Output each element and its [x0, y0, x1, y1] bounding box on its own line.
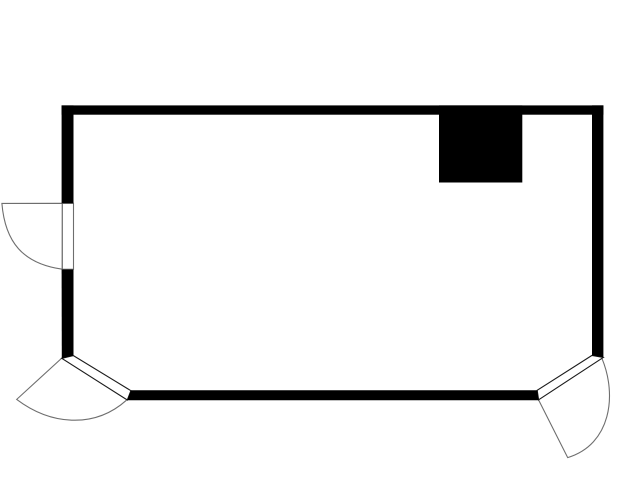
closet / column block top-right	[439, 105, 522, 182]
left wall upper segment	[62, 105, 74, 203]
door D1 swing arc sector (left wall door)	[2, 203, 62, 269]
bottom wall	[127, 390, 538, 400]
top wall	[62, 105, 604, 114]
door D2 leaf	[62, 356, 131, 400]
right wall	[592, 105, 603, 357]
door D2 swing arc sector (bottom-left corner door)	[17, 349, 127, 421]
door D1 frame	[62, 203, 73, 269]
left wall lower segment	[62, 270, 74, 359]
door D3 swing arc sector (bottom-right corner door)	[539, 358, 610, 457]
door D3 leaf	[537, 355, 603, 399]
